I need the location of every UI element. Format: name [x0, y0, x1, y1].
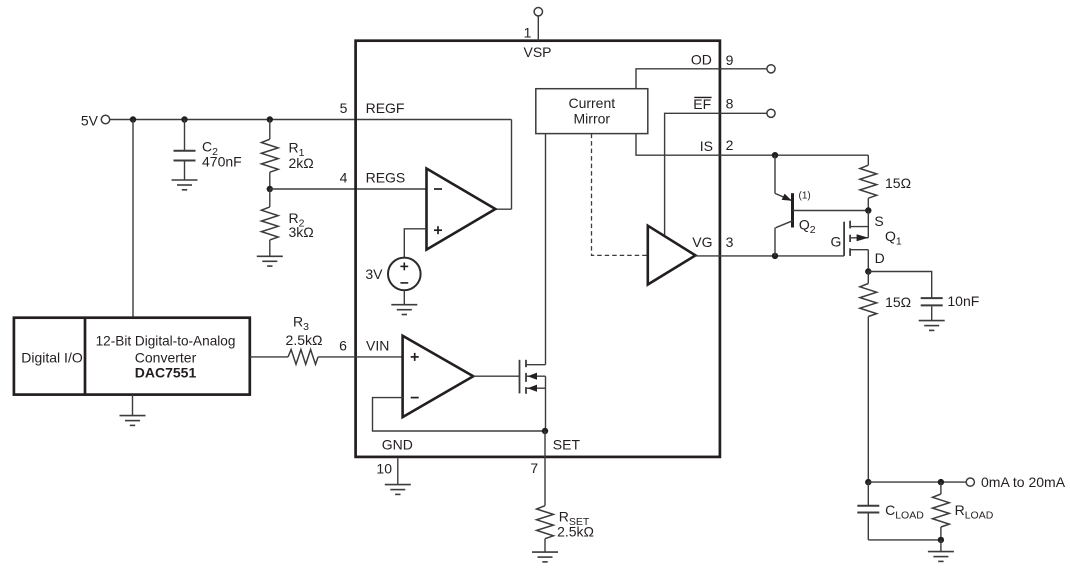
svg-text:S: S [874, 213, 883, 229]
ground below 3V source [391, 305, 417, 315]
node IS / Q2 emitter [772, 152, 778, 158]
node load bottom [938, 537, 944, 543]
capacitor CLOAD [857, 482, 879, 540]
node S [865, 207, 871, 213]
transistor Q1 P-MOSFET [831, 211, 902, 272]
ground below load [928, 552, 954, 562]
svg-text:Mirror: Mirror [574, 111, 611, 127]
DAC box [14, 318, 250, 395]
svg-text:DAC7551: DAC7551 [135, 365, 197, 381]
wire 3V source to ground [403, 290, 405, 304]
op-amp U2 (input amp) [403, 336, 474, 417]
resistor R3 2.5k [288, 350, 318, 365]
ground below C2 [172, 180, 198, 190]
ground below DAC [120, 416, 146, 426]
wire D node to snubber cap [868, 272, 931, 298]
svg-text:VSP: VSP [523, 44, 551, 60]
svg-text:Converter: Converter [135, 349, 197, 365]
svg-text:5V: 5V [81, 112, 99, 128]
svg-text:G: G [831, 234, 842, 250]
capacitor 10nF [921, 298, 943, 320]
svg-text:2: 2 [726, 137, 734, 153]
svg-text:4: 4 [340, 170, 348, 186]
node RLOAD top [938, 479, 944, 485]
svg-text:2kΩ: 2kΩ [289, 155, 314, 171]
resistor R1 2k [269, 120, 271, 140]
wire GND pin to ground [397, 458, 399, 484]
node REGS divider [267, 186, 273, 192]
svg-text:GND: GND [382, 436, 413, 452]
wire REGS to op-amp U1 minus input [270, 188, 427, 190]
wire current mirror down to internal mosfet drain [545, 134, 547, 365]
IS external wire to source resistor [720, 154, 868, 156]
svg-text:8: 8 [726, 96, 734, 112]
svg-text:15Ω: 15Ω [885, 294, 911, 310]
wire load node to output terminal [868, 481, 966, 483]
current mirror block [536, 89, 648, 134]
5V input terminal [81, 112, 110, 128]
node at DAC supply branch [130, 116, 136, 122]
svg-text:5: 5 [340, 100, 348, 116]
internal mosfet M1 [520, 360, 546, 431]
svg-text:15Ω: 15Ω [885, 175, 911, 191]
ground below RSET [532, 552, 558, 562]
wire to load ground [940, 540, 942, 551]
node VG / Q2 collector [772, 253, 778, 259]
resistor 15 ohm source sense [867, 155, 869, 165]
output terminal 0mA to 20mA [966, 478, 974, 486]
wire U2 output to internal mosfet gate [473, 375, 519, 377]
svg-text:3V: 3V [365, 266, 383, 282]
wire U2 minus feedback to SET node [373, 398, 546, 431]
wire IS pin to current mirror [636, 134, 720, 156]
wire DAC output to R3 [250, 356, 288, 358]
svg-text:0mA to 20mA: 0mA to 20mA [981, 474, 1066, 490]
resistor 15 ohm output [867, 272, 869, 284]
svg-text:6: 6 [339, 338, 347, 354]
ground below pin 10 [385, 485, 411, 495]
resistor RSET 2.5k [537, 506, 554, 539]
wire from 5V rail down to DAC box [132, 120, 134, 318]
svg-text:REGS: REGS [366, 170, 406, 186]
wire Q2 base to source node [793, 210, 869, 212]
VSP terminal pin 1 [523, 8, 551, 61]
OD external wire and terminal [720, 68, 767, 70]
svg-text:12-Bit Digital-to-Analog: 12-Bit Digital-to-Analog [96, 333, 236, 348]
wire pin 7 to RSET [544, 457, 546, 506]
ground below R2 [257, 256, 283, 266]
svg-text:REGF: REGF [366, 100, 405, 116]
svg-text:(1): (1) [799, 190, 811, 201]
wire DAC box to ground [132, 395, 134, 416]
svg-text:Digital I/O: Digital I/O [21, 349, 83, 365]
node SET [542, 428, 548, 434]
svg-text:VG: VG [692, 234, 712, 250]
wire 5V rail to REGF feedback corner [110, 119, 512, 121]
resistor RLOAD [940, 482, 942, 494]
wire SET node to pin 7 [544, 431, 546, 457]
wire OD pin to current mirror [636, 69, 720, 89]
wire R3 to pin 6 VIN [318, 356, 403, 358]
svg-text:IS: IS [700, 138, 713, 154]
svg-text:2.5kΩ: 2.5kΩ [286, 332, 323, 348]
EF external wire and terminal [720, 112, 767, 114]
op-amp U1 (regulator amp) [427, 169, 496, 250]
svg-text:EF: EF [693, 96, 711, 112]
svg-text:D: D [875, 250, 885, 266]
main IC box XTR [356, 41, 720, 457]
VG external wire to Q1 gate [720, 255, 844, 257]
svg-text:9: 9 [726, 52, 734, 68]
svg-text:470nF: 470nF [202, 153, 242, 169]
svg-text:OD: OD [691, 51, 712, 67]
node load left [865, 479, 871, 485]
svg-text:SET: SET [553, 437, 581, 453]
wire op-amp U1 plus input to 3V source [404, 229, 426, 258]
svg-text:2.5kΩ: 2.5kΩ [557, 523, 594, 539]
3V voltage source V1 [365, 258, 420, 291]
ground below 10nF [919, 321, 945, 331]
node at R1 branch [267, 116, 273, 122]
svg-text:10nF: 10nF [947, 293, 979, 309]
wire EF pin down to VG driver [665, 113, 720, 236]
svg-text:7: 7 [530, 460, 538, 476]
wire output resistor down to load node [867, 317, 869, 483]
VG driver buffer [648, 226, 696, 285]
wire VG driver to pin 3 [696, 255, 720, 257]
dashed control line from current mirror to VG driver [592, 134, 648, 256]
svg-text:VIN: VIN [366, 338, 389, 354]
svg-text:1: 1 [524, 24, 532, 40]
svg-text:Current: Current [568, 95, 615, 111]
svg-text:3kΩ: 3kΩ [289, 224, 314, 240]
transistor Q2 [775, 155, 816, 256]
resistor R2 3k [269, 189, 271, 207]
capacitor C2 [174, 120, 196, 180]
wire CLOAD bottom to RLOAD bottom [868, 539, 941, 541]
svg-text:10: 10 [376, 461, 392, 477]
wire REGF feedback down to op-amp U1 output [511, 120, 513, 210]
node D [865, 268, 871, 274]
svg-text:3: 3 [726, 234, 734, 250]
node at C2 branch [181, 116, 187, 122]
